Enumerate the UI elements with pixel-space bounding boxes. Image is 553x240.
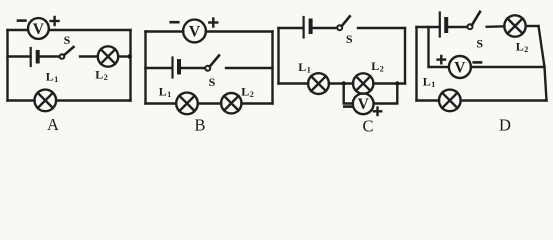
junction: voltmeter left tap (C) bbox=[342, 81, 346, 85]
wire: D right edge bbox=[539, 26, 547, 101]
wire: battery to switch (B) bbox=[181, 67, 206, 69]
svg-text:S: S bbox=[346, 32, 353, 46]
lamp L2 (circuit A) bbox=[98, 46, 118, 66]
wire: battery to switch (C) bbox=[313, 27, 338, 29]
svg-text:L1: L1 bbox=[159, 85, 172, 100]
svg-text:S: S bbox=[476, 37, 483, 51]
wire: C top side, left edge to battery bbox=[279, 27, 304, 29]
battery cell (circuit D) bbox=[440, 13, 446, 37]
wire: voltmeter to right edge (D) bbox=[471, 66, 545, 68]
lamp L2 (circuit D) bbox=[504, 15, 525, 36]
svg-text:V: V bbox=[33, 21, 45, 38]
svg-text:D: D bbox=[499, 116, 511, 135]
wire: B bottom side, left of lamp L1 bbox=[146, 102, 177, 104]
svg-text:V: V bbox=[454, 60, 466, 77]
wire: C lamp row, left edge to lamp L1 bbox=[279, 82, 309, 84]
battery cell (circuit B) bbox=[173, 58, 180, 78]
wire: lamp L2 to right edge (C) bbox=[373, 82, 405, 84]
wire: switch to lamp L2 (D) bbox=[487, 25, 505, 28]
lamp L2 (circuit B) bbox=[221, 93, 241, 113]
junction: voltmeter right tap (C) bbox=[395, 81, 399, 85]
label: plus terminal of voltmeter D bbox=[438, 56, 445, 63]
wire: B top side, right of voltmeter bbox=[206, 30, 273, 32]
wire: A bottom side, left of lamp L1 bbox=[8, 99, 35, 101]
wire: A top side, left of voltmeter bbox=[8, 29, 29, 31]
wire: circuit A left edge bbox=[6, 30, 8, 101]
wire: A top side, right of voltmeter bbox=[49, 29, 131, 31]
wire: between lamp L1 and lamp L2 (C) bbox=[329, 82, 353, 84]
lamp L1 (circuit D) bbox=[439, 90, 461, 112]
junction: A middle wire joins right edge bbox=[127, 54, 131, 58]
wire: A right edge bbox=[129, 30, 131, 101]
svg-text:L1: L1 bbox=[423, 75, 436, 90]
svg-text:C: C bbox=[362, 117, 373, 136]
wire: B right edge bbox=[271, 32, 273, 104]
wire: A middle branch, left edge to battery bbox=[8, 55, 31, 57]
wire: circuit C left edge bbox=[277, 28, 279, 84]
lamp L1 (circuit C) bbox=[308, 73, 329, 94]
wire: switch to right edge (C) bbox=[358, 27, 405, 29]
wire: lamp L2 to right edge (B) bbox=[242, 102, 273, 104]
wire: voltmeter branch left drop (C) bbox=[344, 84, 353, 104]
wire: lamp L2 to right edge (A) bbox=[118, 55, 130, 57]
lamp L2 (circuit C) bbox=[353, 73, 373, 93]
wire: B top side, left of voltmeter bbox=[146, 30, 184, 32]
svg-text:S: S bbox=[209, 75, 216, 89]
svg-text:L2: L2 bbox=[241, 85, 254, 100]
voltmeter V (circuit D) bbox=[449, 56, 471, 78]
svg-text:L2: L2 bbox=[516, 40, 529, 55]
battery cell (circuit C) bbox=[304, 17, 311, 38]
wire: D top side, left edge to battery bbox=[417, 26, 440, 28]
svg-text:V: V bbox=[189, 24, 201, 41]
label: plus terminal of voltmeter C bbox=[374, 108, 381, 115]
wire: D bottom side, right of lamp L1 bbox=[461, 99, 547, 101]
label: plus terminal of voltmeter A bbox=[51, 17, 59, 25]
voltmeter V (circuit B) bbox=[183, 20, 206, 43]
wire: circuit B left edge bbox=[144, 32, 146, 104]
svg-text:V: V bbox=[358, 96, 370, 113]
switch S (circuit D) bbox=[468, 12, 481, 29]
wire: switch to lamp L2 (A) bbox=[80, 55, 98, 57]
switch S (circuit C) bbox=[337, 16, 350, 30]
wire: A bottom side, right of lamp L1 bbox=[56, 99, 130, 101]
wire: circuit D left edge bbox=[415, 27, 417, 101]
svg-text:L2: L2 bbox=[95, 68, 108, 83]
label: minus terminal of voltmeter D bbox=[474, 61, 481, 64]
wire: lamp L2 to right edge (D) bbox=[526, 25, 539, 27]
wire: C right edge bbox=[404, 28, 406, 84]
label: minus terminal of voltmeter C bbox=[344, 105, 351, 108]
voltmeter V (circuit A) bbox=[28, 18, 49, 39]
lamp L1 (circuit A) bbox=[35, 90, 57, 112]
label: plus terminal of voltmeter B bbox=[209, 19, 217, 27]
voltmeter V (circuit C) bbox=[353, 93, 374, 114]
svg-text:B: B bbox=[194, 116, 205, 135]
svg-text:S: S bbox=[64, 33, 71, 47]
wire: voltmeter branch vertical from top wire (D) bbox=[429, 27, 449, 67]
wire: between lamps L1 and L2 (B) bbox=[198, 102, 222, 104]
wire: D bottom side, left of lamp L1 bbox=[417, 99, 440, 101]
label: minus terminal of voltmeter A bbox=[18, 19, 25, 22]
wire: battery to switch (D) bbox=[448, 26, 467, 28]
svg-text:L1: L1 bbox=[46, 70, 59, 85]
switch S (circuit A) bbox=[60, 47, 74, 59]
wire: voltmeter branch right drop (C) bbox=[374, 84, 398, 104]
svg-text:A: A bbox=[47, 115, 59, 134]
wire: B middle branch, left edge to battery bbox=[146, 67, 173, 69]
svg-text:L1: L1 bbox=[298, 60, 311, 75]
battery cell (circuit A) bbox=[31, 48, 38, 66]
wire: battery to switch (A) bbox=[40, 55, 61, 57]
label: minus terminal of voltmeter B bbox=[171, 21, 179, 24]
svg-text:L2: L2 bbox=[371, 59, 384, 74]
switch S (circuit B) bbox=[205, 56, 219, 71]
lamp L1 (circuit B) bbox=[176, 93, 198, 115]
wire: switch to right edge (B) bbox=[226, 67, 273, 69]
